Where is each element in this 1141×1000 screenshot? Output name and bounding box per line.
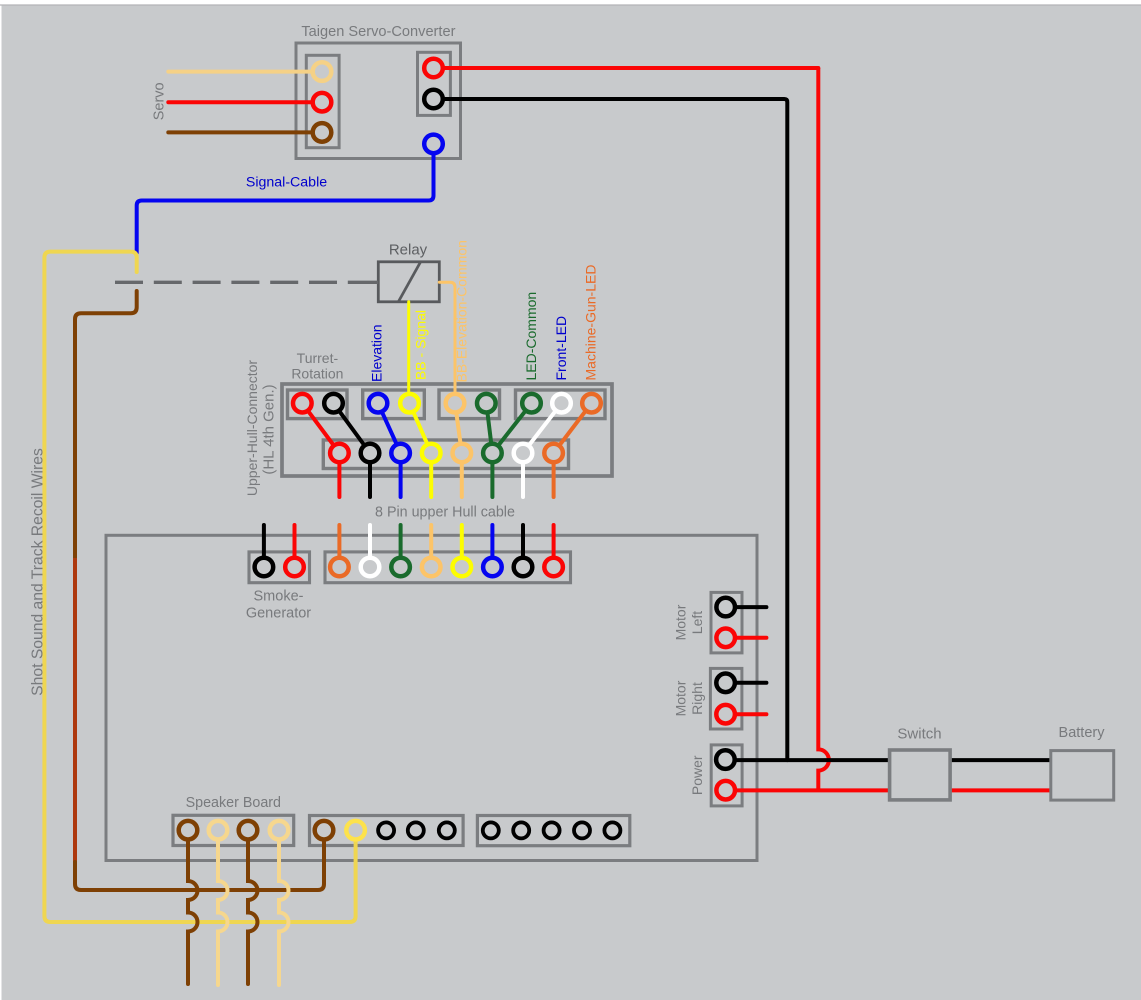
track recoil wire middle run (rust discolored segment): [73, 558, 77, 864]
signal-cable wire (blue): [137, 144, 434, 253]
hull top pin elevation blue: [369, 394, 388, 413]
dashed relay control linkage line: [115, 281, 361, 284]
speaker board connector B housing: [310, 816, 464, 846]
speaker board connector C housing: [477, 816, 629, 846]
servo 3-pin connector J1 housing: [306, 55, 339, 147]
svg-text:Switch: Switch: [897, 726, 941, 743]
hull lower row pin red: [330, 444, 349, 463]
board 8-pin black wire stub: [521, 525, 525, 567]
speaker board pin C5 black (unused): [604, 822, 620, 838]
svg-text:Front-LED: Front-LED: [553, 316, 569, 381]
hull lower row pin tan: [453, 444, 472, 463]
svg-text:Signal-Cable: Signal-Cable: [246, 175, 327, 191]
board 8-pin yellow wire stub: [460, 525, 464, 567]
hull cable red wire stub: [337, 453, 341, 497]
board 8-pin connector pin yellow: [453, 558, 472, 577]
board 8-pin connector pin tan: [422, 558, 441, 577]
elevation blue link: [378, 403, 401, 453]
speaker board pin C4 black (unused): [574, 822, 590, 838]
power connector housing: [711, 745, 742, 806]
machine-gun-LED orange link: [554, 403, 592, 453]
smoke-generator black wire stub: [262, 525, 266, 567]
smoke-generator red wire stub: [293, 525, 297, 567]
converter signal pin (blue): [424, 135, 443, 154]
svg-text:BB - Signal: BB - Signal: [413, 310, 429, 380]
hull cable white wire stub: [521, 453, 525, 497]
speaker board pin B4 black (unused): [408, 822, 424, 838]
turret-rotation red link: [302, 403, 339, 453]
svg-text:Upper-Hull-Connector: Upper-Hull-Connector: [244, 360, 260, 497]
svg-text:LED-Common: LED-Common: [523, 292, 539, 381]
svg-text:Motor: Motor: [673, 680, 689, 716]
motor left red wire stub: [726, 636, 767, 640]
speaker board pin A3 brown: [239, 821, 258, 840]
speaker board pin B5 black (unused): [439, 822, 455, 838]
smoke-generator pin black: [255, 558, 274, 577]
board 8-pin red wire stub: [552, 525, 556, 567]
LED-common green link b: [492, 403, 531, 453]
BB-elevation-common wire (tan) relay to hull pin: [439, 282, 455, 403]
servo ground wire (brown): [168, 130, 322, 134]
battery plus wire from converter (red): [434, 66, 819, 70]
hull top pin machine-gun orange: [582, 394, 601, 413]
hull top pin LED green b: [522, 394, 541, 413]
speaker board pin B1 brown: [315, 821, 334, 840]
servo power wire (red): [168, 100, 322, 104]
front-LED white link: [523, 403, 562, 453]
smoke-generator connector housing: [249, 552, 310, 583]
hull cable green wire stub: [490, 453, 494, 497]
svg-text:Speaker Board: Speaker Board: [186, 795, 281, 811]
switch S1 box: [890, 750, 951, 800]
speaker board connector A housing: [173, 815, 294, 845]
board 8-pin tan wire stub: [429, 525, 433, 567]
svg-text:Battery: Battery: [1059, 725, 1106, 741]
hull cable blue wire stub: [399, 453, 403, 497]
battery minus wire from converter (black): [434, 99, 788, 760]
svg-text:8 Pin upper Hull cable: 8 Pin upper Hull cable: [375, 505, 515, 521]
turret-rotation 2-pin socket housing: [288, 390, 348, 419]
hull top pin front-LED white: [552, 394, 571, 413]
hull lower row pin yellow: [422, 444, 441, 463]
power pin red: [716, 781, 735, 800]
svg-text:Smoke-: Smoke-: [254, 589, 304, 605]
hull cable black wire stub: [368, 453, 372, 497]
smoke-generator pin red: [285, 558, 304, 577]
svg-text:Elevation: Elevation: [369, 324, 385, 382]
speaker board pin C2 black (unused): [513, 822, 529, 838]
relay control linkage solid stub at relay: [361, 281, 378, 284]
svg-text:Power: Power: [689, 755, 705, 795]
svg-text:Servo: Servo: [152, 82, 168, 120]
motor right black wire stub: [726, 681, 767, 685]
hull lower row pin orange: [544, 444, 563, 463]
svg-text:Right: Right: [689, 682, 705, 715]
power minus wire to battery (black): [725, 758, 1051, 762]
hull top pin LED green a: [477, 394, 496, 413]
servo pin 3 (brown): [313, 123, 332, 142]
battery output 2-pin connector J2 housing: [418, 52, 451, 115]
converter output pin minus (black): [424, 90, 443, 109]
elevation / BB-signal 2-pin socket housing: [363, 390, 425, 419]
hull cable yellow wire stub: [429, 453, 433, 497]
motor right pin black: [716, 674, 735, 693]
board 8-pin connector pin white: [361, 558, 380, 577]
board 8-pin connector pin orange: [330, 558, 349, 577]
motor right connector housing: [710, 668, 742, 729]
svg-text:(HL 4th Gen.): (HL 4th Gen.): [261, 384, 278, 474]
speaker board pin C1 black (unused): [483, 822, 499, 838]
hull lower row pin black: [361, 444, 380, 463]
svg-text:Motor: Motor: [673, 604, 689, 640]
Taigen Servo-Converter box U1: [296, 43, 461, 159]
motor right pin red: [716, 705, 735, 724]
shot sound wire (yellow) long run: [44, 252, 355, 922]
track recoil wire (brown) upper run: [75, 291, 137, 560]
motor left pin red: [716, 629, 735, 648]
svg-text:Shot Sound and Track Recoil Wi: Shot Sound and Track Recoil Wires: [30, 448, 47, 696]
board 8-pin blue wire stub: [490, 525, 494, 567]
BB-signal yellow link: [410, 403, 432, 453]
speaker board pin A1 brown: [179, 821, 198, 840]
servo signal wire (tan): [168, 70, 322, 74]
BB-elevation-common tan link: [455, 403, 462, 453]
Upper-Hull-Connector main housing: [282, 384, 612, 476]
turret-rotation black link: [334, 403, 371, 453]
svg-text:Turret-: Turret-: [297, 350, 339, 366]
svg-text:Left: Left: [689, 611, 705, 634]
track recoil wire (brown) lower run to speaker pin: [75, 830, 324, 890]
converter output pin plus (red): [424, 59, 443, 78]
battery BT1 box: [1051, 751, 1114, 801]
motor left pin black: [716, 598, 735, 617]
board 8-pin connector pin green: [391, 558, 410, 577]
board 8-pin connector pin blue: [483, 558, 502, 577]
board 8-pin connector pin black: [514, 558, 533, 577]
red battery wire vertical with hop over black: [818, 68, 829, 790]
hull top pin BB-signal yellow: [400, 394, 419, 413]
hull top pin BB-elevation-common tan: [446, 394, 465, 413]
servo pin 1 (tan): [313, 62, 332, 81]
speaker wire 3 (brown) with hops: [248, 830, 258, 984]
board 8-pin orange wire stub: [337, 525, 341, 567]
speaker wire 4 (tan) with hops: [279, 830, 289, 985]
svg-text:Taigen Servo-Converter: Taigen Servo-Converter: [301, 24, 455, 40]
svg-text:Rotation: Rotation: [291, 366, 343, 382]
speaker board pin C3 black (unused): [544, 822, 560, 838]
speaker board pin A4 tan: [270, 821, 289, 840]
board 8-pin connector pin red: [544, 558, 563, 577]
BB-signal wire (yellow) relay to hull pin: [407, 302, 410, 403]
board 8-pin white wire stub: [368, 525, 372, 567]
speaker board pin A2 tan: [209, 821, 228, 840]
motor right red wire stub: [726, 712, 767, 716]
power pin black: [716, 750, 735, 769]
hull connector 8-pin lower row housing: [323, 440, 568, 469]
speaker wire 1 (brown) with hops: [188, 830, 198, 984]
relay K1 internal diagonal: [399, 262, 421, 302]
main lower-hull board outline: [106, 535, 757, 860]
hull top pin turret black: [324, 394, 343, 413]
hull lower row pin blue: [391, 444, 410, 463]
svg-text:BB-Elevation-Common: BB-Elevation-Common: [454, 240, 470, 382]
power plus wire to switch (red): [726, 788, 1051, 792]
hull top pin turret red: [293, 394, 312, 413]
board 8-pin upper hull connector housing: [325, 552, 571, 583]
svg-text:Relay: Relay: [389, 242, 428, 259]
hull cable tan wire stub: [460, 453, 464, 497]
BB-elevation-common / LED 2-pin socket housing: [439, 390, 500, 419]
svg-text:Machine-Gun-LED: Machine-Gun-LED: [583, 265, 599, 381]
motor left black wire stub: [726, 605, 767, 609]
speaker wire 2 (tan) with hops: [218, 830, 228, 985]
speaker board pin B2 yellow: [346, 821, 365, 840]
LED 3-pin socket housing: [516, 390, 606, 419]
motor left connector housing: [711, 592, 742, 653]
hull lower row pin green: [483, 444, 502, 463]
hull cable orange wire stub: [552, 453, 556, 497]
LED-common green link a: [486, 403, 492, 453]
board 8-pin green wire stub: [399, 525, 403, 567]
svg-text:Generator: Generator: [246, 606, 311, 622]
hull lower row pin white: [514, 444, 533, 463]
servo pin 2 (red): [313, 93, 332, 112]
relay K1 box: [378, 262, 439, 302]
speaker board pin B3 black (unused): [378, 822, 394, 838]
